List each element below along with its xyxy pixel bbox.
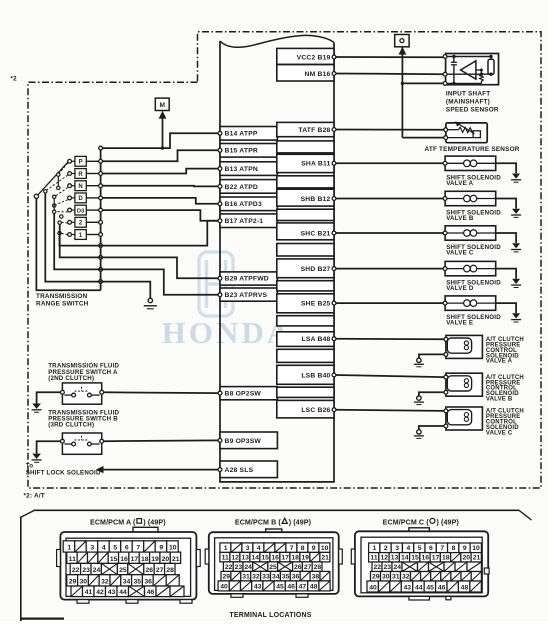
ground (shift solenoid valve E) — [512, 313, 520, 318]
svg-text:27: 27 — [304, 564, 312, 571]
unlabeled ECM pin box — [277, 316, 334, 326]
svg-text:NM B16: NM B16 — [305, 71, 331, 78]
svg-text:24: 24 — [244, 564, 252, 571]
ground (shift solenoid valve B) — [512, 209, 520, 214]
svg-text:28: 28 — [166, 567, 174, 574]
svg-text:22: 22 — [374, 564, 382, 571]
svg-text:41: 41 — [85, 589, 93, 596]
pin terminal B15 — [218, 148, 222, 152]
svg-text:7: 7 — [440, 545, 444, 552]
pin terminal A28 — [218, 468, 222, 472]
ECM pin box B13 ATPN — [220, 162, 277, 176]
switch mechanical link (dashed) — [62, 221, 68, 224]
svg-text:29: 29 — [372, 574, 380, 581]
switch moving contact — [58, 231, 61, 234]
wire switch B to ground — [37, 441, 61, 453]
bus junction terminal — [99, 172, 103, 176]
svg-text:46: 46 — [438, 585, 446, 592]
svg-text:INPUT SHAFT: INPUT SHAFT — [446, 91, 490, 98]
shift solenoid valve C — [445, 226, 496, 240]
svg-text:43: 43 — [404, 585, 412, 592]
svg-text:SHE B25: SHE B25 — [301, 301, 331, 308]
svg-text:LSC B26: LSC B26 — [301, 407, 330, 414]
pin terminal B16 — [218, 202, 222, 206]
svg-text:32: 32 — [101, 579, 109, 586]
svg-text:VALVE B: VALVE B — [486, 397, 513, 403]
range switch position box D3 — [75, 205, 86, 215]
wire LSA to clutch pressure valve A — [336, 338, 444, 341]
page corner mark — [20, 617, 64, 619]
svg-text:19: 19 — [301, 554, 309, 561]
wire switch contact to B23 ATPRVS — [54, 214, 218, 295]
svg-text:28: 28 — [314, 564, 322, 571]
svg-text:31: 31 — [392, 574, 400, 581]
svg-text:N: N — [78, 184, 82, 190]
range switch selector arm — [38, 162, 68, 195]
wire LSB to clutch pressure valve B — [336, 375, 444, 377]
ATF sensor terminals — [444, 128, 448, 132]
speed sensor terminals — [443, 55, 447, 59]
svg-text:5: 5 — [113, 545, 117, 552]
wire switch A to ECM — [104, 391, 219, 394]
ECM pin box SHA B11 — [277, 154, 334, 172]
range switch position box R — [75, 169, 86, 179]
fixed contact D3 — [68, 208, 72, 212]
wire switch contact to B29 ATPFWD — [60, 224, 219, 278]
wire 2 contact to bus — [86, 221, 100, 223]
ground (clutch pressure valve A) — [417, 358, 421, 362]
ECM pin box SHD B27 — [277, 259, 334, 278]
svg-text:(3RD CLUTCH): (3RD CLUTCH) — [48, 422, 94, 429]
svg-text:7: 7 — [136, 545, 140, 552]
connector B pin grid — [220, 543, 231, 553]
ground (switch A) — [32, 404, 41, 409]
pin terminal B29 — [218, 276, 222, 280]
svg-text:8: 8 — [452, 545, 456, 552]
sensor bias resistor (zigzag) — [480, 74, 484, 83]
svg-text:34: 34 — [272, 573, 280, 580]
wire D contact to B16 ATPD3 — [103, 198, 219, 204]
ECM pin box B23 ATPRVS — [220, 288, 277, 301]
bus junction terminal — [99, 184, 103, 188]
ECM pin box TATF B28 — [277, 122, 334, 136]
switch B terminals — [61, 439, 65, 443]
svg-text:16: 16 — [421, 555, 429, 562]
svg-text:VALVE A: VALVE A — [446, 180, 473, 187]
sensor top rail — [447, 56, 491, 58]
svg-text:3: 3 — [395, 545, 399, 552]
wire valve B to ground — [419, 392, 444, 396]
arrow to M — [159, 111, 167, 119]
unlabeled ECM pin box — [277, 349, 334, 362]
wire A28 SLS to shift lock solenoid (arrow) — [103, 469, 218, 471]
pin terminal B9 — [218, 439, 222, 443]
fixed contact R — [68, 172, 72, 176]
pin terminal B23 — [218, 293, 222, 297]
svg-text:36: 36 — [144, 579, 152, 586]
switch moving contact — [60, 215, 63, 218]
input shaft (mainshaft) speed sensor — [446, 54, 499, 85]
fixed contact P — [68, 159, 72, 163]
ECM pin box SHB B12 — [277, 189, 334, 206]
bus junction terminal — [99, 268, 103, 272]
pin terminal B48 — [332, 337, 336, 341]
ECM pin box B15 ATPR — [220, 144, 277, 158]
switch moving contact — [53, 195, 56, 198]
wire valve B to ground — [496, 199, 516, 209]
svg-text:ECM/PCM C (: ECM/PCM C ( — [383, 519, 430, 527]
unlabeled ECM pin box — [277, 244, 334, 257]
svg-text:25: 25 — [269, 564, 277, 571]
wire switch B to ECM — [104, 439, 219, 442]
svg-text:ECM/PCM A (: ECM/PCM A ( — [90, 519, 136, 527]
svg-text:25: 25 — [119, 567, 127, 574]
svg-text:26: 26 — [146, 567, 154, 574]
svg-text:48: 48 — [310, 583, 318, 590]
svg-text:TRANSMISSION: TRANSMISSION — [36, 293, 88, 300]
svg-text:*2: A/T: *2: A/T — [24, 493, 45, 500]
wire NM to speed sensor — [336, 73, 443, 76]
transmission fluid pressure switch A — [62, 383, 101, 404]
bus junction terminal — [99, 244, 103, 248]
svg-text:4: 4 — [406, 545, 410, 552]
svg-text:A28 SLS: A28 SLS — [225, 467, 254, 474]
svg-text:M: M — [160, 102, 166, 109]
svg-text:13: 13 — [241, 554, 249, 561]
svg-text:2: 2 — [384, 545, 388, 552]
svg-text:16: 16 — [271, 554, 279, 561]
ground G101 (range switch) — [148, 298, 152, 302]
sensor op-amp triangle — [461, 61, 476, 79]
pin terminal B13 — [218, 167, 222, 171]
pin terminal B22 — [218, 185, 222, 189]
switch moving contact — [58, 221, 61, 224]
pin terminal B21 — [332, 231, 336, 235]
svg-text:1: 1 — [373, 545, 377, 552]
svg-text:TATF B28: TATF B28 — [298, 127, 330, 134]
ground (clutch pressure valve B) — [417, 396, 421, 400]
wire SHA to shift solenoid valve A — [336, 162, 443, 164]
A/T clutch pressure control solenoid valve A — [446, 335, 483, 358]
bus junction terminal — [99, 280, 103, 284]
switch mechanical link (dashed) — [47, 175, 68, 190]
sensor NM line — [447, 73, 491, 75]
Honda watermark emblem — [199, 252, 233, 316]
switch mechanical link (dashed) — [56, 188, 68, 196]
bus junction terminal — [99, 233, 103, 237]
svg-text:35: 35 — [282, 573, 290, 580]
svg-text:B13 ATPN: B13 ATPN — [225, 166, 258, 173]
svg-text:LSA B48: LSA B48 — [302, 336, 331, 343]
svg-text:42: 42 — [96, 589, 104, 596]
wire valve A to ground — [496, 163, 516, 173]
svg-text:SHIFT LOCK SOLENOID: SHIFT LOCK SOLENOID — [26, 470, 101, 477]
svg-text:11: 11 — [370, 555, 377, 562]
sensor bottom rail — [447, 82, 482, 84]
svg-text:15: 15 — [411, 555, 419, 562]
svg-text:18: 18 — [291, 554, 299, 561]
thermistor leads — [448, 129, 459, 131]
svg-text:*2: *2 — [11, 76, 18, 83]
svg-text:8: 8 — [301, 545, 305, 552]
svg-text:9: 9 — [159, 545, 163, 552]
switch moving contact — [57, 173, 60, 176]
ECM pin box A28 SLS — [220, 461, 277, 478]
ECM pin box LSC B26 — [277, 400, 334, 418]
pin terminal B27 — [332, 267, 336, 271]
unlabeled ECM pin box — [277, 281, 334, 291]
svg-text:32: 32 — [402, 574, 410, 581]
svg-text:7: 7 — [290, 545, 294, 552]
wire P contact to bus — [86, 160, 100, 162]
pin terminal B40 — [332, 373, 336, 377]
wire P contact to B15 ATPR — [103, 150, 219, 161]
svg-text:4: 4 — [257, 545, 261, 552]
switch A terminals — [61, 390, 65, 394]
svg-text:35: 35 — [134, 579, 142, 586]
wire SHE to shift solenoid valve E — [336, 302, 443, 304]
range switch position box D — [75, 193, 86, 203]
wire R contact to bus — [86, 173, 100, 175]
connector C pin grid — [369, 543, 380, 553]
svg-text:VCC2 B19: VCC2 B19 — [297, 54, 331, 61]
pin terminal B14 — [218, 131, 222, 135]
svg-text:(MAINSHAFT): (MAINSHAFT) — [446, 99, 490, 106]
switch moving contact — [57, 186, 60, 189]
transmission range switch common bus wire — [100, 148, 102, 290]
ground (clutch pressure valve C) — [417, 430, 421, 434]
svg-text:1: 1 — [67, 545, 71, 552]
ECM pin box B8 OP2SW — [220, 387, 277, 400]
svg-text:6: 6 — [125, 545, 129, 552]
page rule — [34, 509, 520, 511]
svg-text:17: 17 — [131, 556, 139, 563]
unlabeled ECM pin box — [277, 141, 334, 153]
fixed contact 2 — [68, 220, 72, 224]
svg-text:B16 ATPD3: B16 ATPD3 — [225, 201, 262, 208]
pin terminal B26 — [332, 408, 336, 412]
A/T clutch pressure control solenoid valve B — [446, 373, 483, 396]
svg-text:18: 18 — [442, 555, 450, 562]
svg-text:43: 43 — [254, 583, 262, 590]
ECM pin box B9 OP3SW — [220, 432, 277, 449]
wire connector C vertical — [401, 48, 403, 138]
svg-text:HONDA: HONDA — [162, 315, 292, 350]
wire switch contact to B17 ATP2-1 — [60, 221, 219, 246]
svg-text:23: 23 — [235, 564, 243, 571]
svg-text:46: 46 — [287, 583, 295, 590]
bus junction terminal — [99, 196, 103, 200]
svg-text:SHD B27: SHD B27 — [301, 266, 331, 273]
svg-text:47: 47 — [299, 583, 307, 590]
valve B terminals — [444, 375, 448, 379]
pin terminal B17 — [218, 219, 222, 223]
bus junction terminal — [99, 146, 103, 150]
svg-text:27: 27 — [156, 567, 164, 574]
svg-text:VALVE D: VALVE D — [446, 285, 474, 292]
switch moving contact — [53, 210, 56, 213]
ECM/PCM wavy top edge — [220, 35, 334, 47]
arrow to connector C — [399, 47, 407, 55]
svg-text:10: 10 — [472, 545, 480, 552]
wire N contact to B22 ATPD — [103, 185, 219, 188]
unlabeled ECM pin box — [277, 387, 334, 397]
A/T region dash-dot border — [28, 32, 541, 488]
svg-text:19: 19 — [151, 556, 159, 563]
svg-text:) (49P): ) (49P) — [437, 519, 460, 527]
svg-text:3: 3 — [90, 545, 94, 552]
svg-text:12: 12 — [380, 555, 388, 562]
svg-text:21: 21 — [321, 554, 329, 561]
wire bus to B14 ATPP — [103, 133, 219, 148]
svg-text:17: 17 — [432, 555, 440, 562]
ECM pin box SHC B21 — [277, 223, 334, 240]
ECM pin box SHE B25 — [277, 294, 334, 313]
svg-text:10: 10 — [321, 545, 329, 552]
svg-text:15: 15 — [261, 554, 269, 561]
svg-text:44: 44 — [119, 589, 127, 596]
svg-text:B9 OP3SW: B9 OP3SW — [225, 438, 262, 445]
svg-text:B14 ATPP: B14 ATPP — [225, 131, 258, 138]
svg-text:24: 24 — [93, 567, 101, 574]
svg-text:30: 30 — [80, 579, 88, 586]
svg-text:B15 ATPR: B15 ATPR — [225, 148, 258, 155]
svg-text:45: 45 — [426, 585, 434, 592]
svg-text:B17 ATP2-1: B17 ATP2-1 — [225, 218, 264, 225]
thermistor arrow — [458, 124, 474, 134]
switch mechanical link (dashed) — [56, 200, 68, 205]
pin terminal B8 — [218, 391, 222, 395]
svg-text:D3: D3 — [77, 208, 85, 214]
ECM pin box VCC2 B19 — [277, 48, 334, 64]
svg-text:33: 33 — [262, 573, 270, 580]
svg-text:D: D — [78, 196, 83, 202]
unlabeled ECM pin box — [277, 209, 334, 220]
svg-text:34: 34 — [123, 579, 131, 586]
svg-text:16: 16 — [120, 556, 128, 563]
svg-text:14: 14 — [251, 554, 259, 561]
svg-text:31: 31 — [242, 573, 250, 580]
switch mechanical link (dashed) — [59, 163, 67, 173]
svg-text:P: P — [79, 160, 83, 166]
svg-text:30: 30 — [382, 574, 390, 581]
svg-text:VALVE B: VALVE B — [446, 215, 474, 222]
ECM pin box B22 ATPD — [220, 180, 277, 194]
svg-text:B29 ATPFWD: B29 ATPFWD — [225, 276, 269, 283]
wire valve E to ground — [496, 303, 516, 313]
pin terminal B16 — [332, 72, 336, 76]
svg-text:24: 24 — [394, 564, 402, 571]
svg-text:ATF TEMPERATURE SENSOR: ATF TEMPERATURE SENSOR — [425, 146, 520, 153]
thermistor element body — [473, 131, 480, 138]
svg-text:22: 22 — [72, 567, 80, 574]
svg-text:6: 6 — [429, 545, 433, 552]
fixed contact 1 — [68, 233, 72, 237]
wire SHB to shift solenoid valve B — [336, 198, 443, 200]
svg-text:43: 43 — [108, 589, 116, 596]
svg-text:18: 18 — [141, 556, 149, 563]
bus junction terminal — [99, 159, 103, 163]
ground (shift solenoid valve C) — [512, 243, 520, 248]
svg-text:) (49P): ) (49P) — [289, 519, 312, 527]
moving contact link — [57, 176, 59, 186]
wire C to ATF sensor — [402, 137, 443, 139]
bus junction terminal — [99, 256, 103, 260]
moving contact link — [53, 199, 55, 211]
ground (shift solenoid valve D) — [512, 279, 520, 284]
connector A pin grid — [63, 541, 74, 552]
wire switch common to bus bottom — [36, 198, 100, 290]
wire switch A to ground — [37, 392, 61, 403]
ECM pin box NM B16 — [277, 65, 334, 81]
svg-text:46: 46 — [147, 589, 155, 596]
ECM pin box B17 ATP2-1 — [220, 214, 277, 228]
svg-text:20: 20 — [162, 556, 170, 563]
svg-text:44: 44 — [415, 585, 423, 592]
svg-text:14: 14 — [401, 555, 409, 562]
wire valve C to ground — [496, 233, 516, 243]
switch moving contact — [53, 204, 56, 207]
wire D3 contact to B17 ATP2-1 — [103, 210, 219, 221]
ECM/PCM main box outline — [220, 41, 334, 482]
svg-text:36: 36 — [292, 573, 300, 580]
pin terminal B19 — [332, 55, 336, 59]
wire valve C to ground — [419, 426, 444, 430]
svg-text:4: 4 — [102, 545, 106, 552]
ground (shift solenoid valve A) — [512, 174, 520, 179]
valve A terminals — [444, 337, 448, 341]
range switch position box N — [75, 181, 86, 191]
switch moving contact — [44, 190, 47, 193]
svg-text:20: 20 — [462, 555, 470, 562]
svg-text:13: 13 — [391, 555, 399, 562]
svg-text:5: 5 — [418, 545, 422, 552]
ECM pin box B16 ATPD3 — [220, 197, 277, 211]
svg-text:VALVE A: VALVE A — [486, 359, 513, 365]
svg-text:B8 OP2SW: B8 OP2SW — [225, 391, 262, 398]
bus junction terminal — [99, 208, 103, 212]
ATF temperature sensor — [446, 123, 487, 143]
pin terminal B11 — [332, 161, 336, 165]
wire R contact to B13 ATPN — [103, 169, 219, 174]
svg-text:TERMINAL LOCATIONS: TERMINAL LOCATIONS — [229, 612, 311, 619]
wire LSC to clutch pressure valve C — [336, 410, 444, 411]
wire D contact to bus — [86, 197, 100, 199]
range switch pivot contact — [34, 194, 38, 198]
switch mechanical link (dashed) — [61, 233, 67, 235]
svg-text:12: 12 — [231, 554, 239, 561]
transmission fluid pressure switch B — [62, 433, 101, 454]
shift solenoid valve A — [445, 156, 496, 170]
svg-text:R: R — [78, 172, 83, 178]
svg-text:VALVE E: VALVE E — [446, 320, 473, 327]
wire VCC2 to speed sensor — [336, 56, 443, 58]
svg-text:LSB B40: LSB B40 — [301, 372, 330, 379]
svg-text:SHB B12: SHB B12 — [301, 196, 331, 203]
bus junction terminal — [99, 220, 103, 224]
svg-text:23: 23 — [82, 567, 90, 574]
svg-text:32: 32 — [252, 573, 260, 580]
ECM pin box LSB B40 — [277, 365, 334, 384]
svg-text:10: 10 — [169, 545, 177, 552]
svg-text:1: 1 — [224, 545, 228, 552]
svg-text:17: 17 — [281, 554, 289, 561]
svg-text:15: 15 — [110, 556, 118, 563]
svg-text:48: 48 — [461, 585, 469, 592]
wire valve D to ground — [496, 269, 516, 279]
svg-text:21: 21 — [473, 555, 481, 562]
svg-text:SHC B21: SHC B21 — [301, 230, 331, 237]
